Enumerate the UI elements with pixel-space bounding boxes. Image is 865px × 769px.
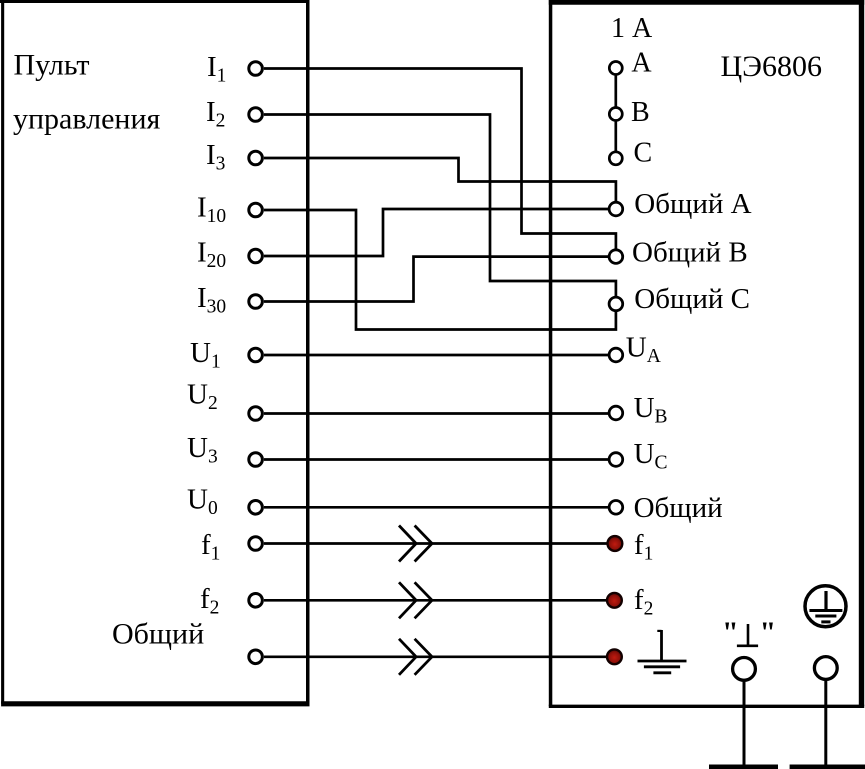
terminal Общий left bbox=[249, 650, 263, 664]
wire f2 bbox=[264, 599, 607, 602]
wire Общий bbox=[264, 655, 607, 658]
terminal Общий B bbox=[609, 250, 623, 264]
svg-text:": " bbox=[760, 616, 777, 649]
connector arrows f2 bbox=[399, 582, 432, 618]
svg-text:Общий: Общий bbox=[634, 492, 723, 524]
wire "⊥" terminal to external ground bbox=[743, 681, 746, 766]
wire I1 to Общий B bbox=[264, 69, 616, 250]
terminal U1 bbox=[249, 348, 263, 362]
wire B to C bbox=[614, 122, 617, 152]
connector arrows Общий bbox=[399, 639, 432, 675]
terminal I2 bbox=[249, 108, 263, 122]
label "⊥" quoted bbox=[737, 624, 758, 646]
terminal Общий red bbox=[607, 649, 622, 664]
wire U0 to Общий right bbox=[264, 506, 608, 509]
terminal I30 bbox=[249, 295, 263, 309]
terminal Общий A bbox=[609, 202, 623, 216]
terminal C bbox=[609, 152, 622, 165]
wire I20 to Общий A left bbox=[264, 209, 608, 256]
svg-text:Общий В: Общий В bbox=[632, 236, 748, 268]
terminal protective earth bbox=[814, 657, 837, 680]
wire I3 to Общий A bbox=[264, 158, 616, 202]
svg-text:ЦЭ6806: ЦЭ6806 bbox=[721, 50, 822, 83]
terminal f1 left bbox=[249, 537, 263, 551]
wire I30 to Общий B left bbox=[264, 257, 608, 302]
terminal I20 bbox=[249, 249, 263, 263]
svg-text:1 А: 1 А bbox=[611, 13, 653, 44]
terminal UC bbox=[609, 453, 623, 467]
terminal B bbox=[609, 108, 622, 121]
svg-text:В: В bbox=[631, 97, 650, 128]
meter box ЦЭ6806 bbox=[549, 0, 864, 706]
wire I10 to Общий C bottom bbox=[264, 210, 616, 330]
wire f1 bbox=[264, 542, 608, 545]
svg-text:Общий: Общий bbox=[112, 618, 204, 651]
wire A to B bbox=[614, 76, 617, 108]
connector arrows f1 bbox=[399, 526, 432, 562]
wire U3 to UC bbox=[264, 458, 608, 461]
external ground bar 2 bbox=[790, 765, 865, 769]
external ground bar 1 bbox=[709, 765, 778, 769]
svg-text:Общий А: Общий А bbox=[634, 188, 751, 220]
terminal f2 left bbox=[249, 594, 263, 608]
svg-text:А: А bbox=[631, 47, 652, 78]
svg-text:": " bbox=[722, 616, 739, 649]
svg-text:управления: управления bbox=[13, 103, 161, 136]
terminal f2 red bbox=[607, 593, 622, 608]
terminal UA bbox=[609, 348, 623, 362]
terminal "⊥" bottom bbox=[733, 658, 756, 681]
svg-text:С: С bbox=[634, 137, 653, 168]
terminal f1 red bbox=[608, 536, 623, 551]
terminal A bbox=[609, 62, 622, 75]
terminal Общий C bbox=[609, 297, 623, 311]
terminal I1 bbox=[249, 62, 263, 76]
terminal U2 bbox=[249, 407, 263, 421]
svg-text:Общий С: Общий С bbox=[634, 283, 750, 315]
svg-text:Пульт: Пульт bbox=[14, 49, 90, 82]
wire U1 to UA bbox=[264, 354, 608, 357]
wire I2 to Общий C bbox=[264, 115, 616, 297]
terminal I3 bbox=[249, 151, 263, 165]
terminal Общий right bbox=[609, 501, 623, 515]
wire PE terminal to external ground bbox=[824, 680, 827, 766]
protective earth symbol bbox=[805, 586, 846, 627]
terminal UB bbox=[609, 406, 623, 420]
ground symbol (signal ground inside box) bbox=[638, 630, 687, 673]
control panel box (Пульт управления) bbox=[0, 0, 310, 704]
terminal U0 bbox=[249, 501, 263, 515]
wire U2 to UB bbox=[264, 412, 608, 415]
terminal I10 bbox=[249, 203, 263, 217]
terminal U3 bbox=[249, 453, 263, 467]
